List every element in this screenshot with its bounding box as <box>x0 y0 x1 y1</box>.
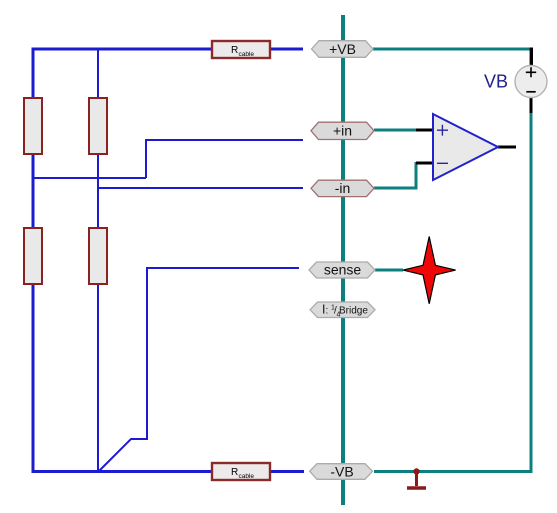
svg-text:cable: cable <box>239 51 255 58</box>
wire bottom Rcable to -VB stub <box>270 470 304 473</box>
resistor R4 bridge lower-right <box>89 228 107 284</box>
wire VB source down to -VB row <box>374 112 531 472</box>
op-amp U1 <box>433 114 498 180</box>
op-amp - input pin <box>416 162 433 165</box>
wire left column middle <box>32 154 35 228</box>
svg-text:-in: -in <box>335 180 351 196</box>
wire +in to op-amp <box>374 129 418 132</box>
wire left column bottom and bottom bus <box>33 284 212 472</box>
ground <box>407 468 426 488</box>
node tag I: 1/4Bridge <box>310 302 375 319</box>
svg-text:R: R <box>231 467 238 478</box>
VB source top lead <box>530 48 533 67</box>
resistor R1 bridge upper-left <box>24 98 42 154</box>
resistor Rcable bottom <box>212 463 270 480</box>
svg-text:sense: sense <box>324 262 362 278</box>
svg-text::: : <box>326 306 329 317</box>
voltage source VB <box>484 66 547 98</box>
wire -in from bridge <box>98 187 303 189</box>
wire sense to star <box>375 269 403 272</box>
node sense <box>309 262 375 279</box>
wire Rcable to +VB stub <box>270 48 303 51</box>
op-amp + input pin <box>416 129 433 132</box>
svg-text:-VB: -VB <box>330 464 353 480</box>
node bus vertical teal <box>341 15 345 505</box>
wire second column bottom <box>97 284 99 472</box>
svg-text:+in: +in <box>333 123 352 139</box>
resistor R2 bridge upper-right <box>89 98 107 154</box>
wire sense from bottom node <box>99 268 300 472</box>
resistor Rcable top <box>212 41 270 58</box>
svg-text:VB: VB <box>484 72 508 92</box>
op-amp output pin <box>498 146 516 149</box>
wire -in to op-amp <box>374 162 416 188</box>
wire bridge mid node horizontal <box>33 177 146 179</box>
svg-text:R: R <box>231 45 238 56</box>
wire second column middle <box>97 154 99 228</box>
svg-text:Bridge: Bridge <box>339 306 368 317</box>
svg-text:cable: cable <box>239 473 255 480</box>
wire +VB to VB source <box>373 48 531 51</box>
wire top bus from bridge to Rcable <box>33 49 212 99</box>
wire second column top <box>97 49 99 99</box>
node +in <box>311 122 374 139</box>
svg-text:+VB: +VB <box>329 41 356 57</box>
sense marker star <box>403 237 456 304</box>
wire +in from bridge <box>146 140 303 178</box>
resistor R3 bridge lower-left <box>24 228 42 284</box>
node -in <box>311 180 374 197</box>
node +VB <box>312 41 374 58</box>
node -VB <box>310 464 373 480</box>
VB source bottom lead <box>530 98 533 114</box>
